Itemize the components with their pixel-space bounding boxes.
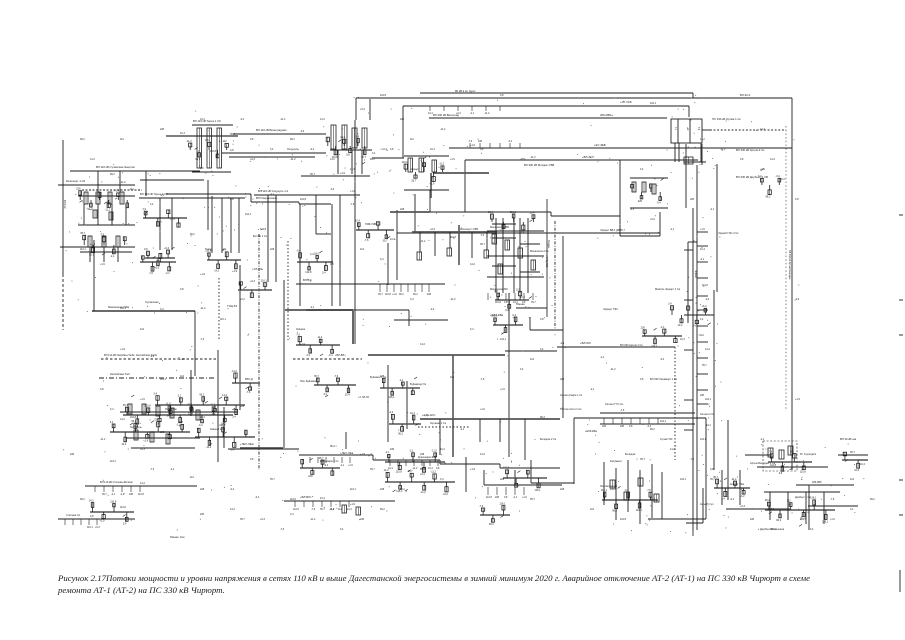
svg-text:110,8: 110,8 <box>380 94 387 97</box>
svg-text:3,4: 3,4 <box>290 513 294 516</box>
wire <box>529 317 531 330</box>
wire to right edge 2 <box>808 505 858 507</box>
svg-text:366-МВА+: 366-МВА+ <box>600 113 614 117</box>
transformer Makhachkala 4 <box>531 260 536 270</box>
svg-text:-2,1: -2,1 <box>670 228 675 231</box>
transformer <box>408 158 413 172</box>
svg-text:Буйнакск 2 Ск: Буйнакск 2 Ск <box>410 383 427 386</box>
svg-text:-7,6: -7,6 <box>480 378 485 381</box>
svg-text:228: 228 <box>478 140 483 143</box>
wire bottom-right link <box>757 466 828 468</box>
tap comb trunk2 <box>428 106 500 115</box>
svg-text:-11,2: -11,2 <box>610 368 616 371</box>
svg-text:10,4: 10,4 <box>428 467 433 470</box>
svg-text:-2,1: -2,1 <box>150 355 155 358</box>
transformer Makhachkala 3 <box>518 248 523 258</box>
svg-text:3,4: 3,4 <box>668 303 672 306</box>
svg-text:+ЕЛЗ-ЕВа: +ЕЛЗ-ЕВа <box>585 430 597 433</box>
transformer south of Kizilyurt <box>417 252 422 260</box>
svg-text:+1,9: +1,9 <box>300 343 306 346</box>
figure caption <box>58 572 903 596</box>
svg-text:+6,3: +6,3 <box>240 298 245 301</box>
svg-text:+1,9: +1,9 <box>180 358 185 361</box>
svg-text:-2,1: -2,1 <box>177 395 182 398</box>
svg-text:-7,6: -7,6 <box>647 489 652 492</box>
substation Zapiket <box>491 314 523 335</box>
svg-text:10,4: 10,4 <box>440 448 445 451</box>
wire drop <box>787 492 789 520</box>
svg-text:Сигнал-2 Ск: Сигнал-2 Ск <box>700 413 715 416</box>
svg-text:110,8: 110,8 <box>702 284 708 287</box>
svg-text:0,8: 0,8 <box>540 318 544 321</box>
feeder comb chain left <box>310 457 353 467</box>
svg-text:228: 228 <box>400 118 405 121</box>
svg-text:0,8: 0,8 <box>795 198 799 201</box>
svg-text:35,7: 35,7 <box>378 293 383 296</box>
wire spine stub <box>697 341 708 343</box>
wire dashed 110kV coast <box>101 358 217 360</box>
svg-text:14,2: 14,2 <box>700 138 705 141</box>
svg-text:228: 228 <box>308 475 313 478</box>
wire long vertical <box>283 280 285 448</box>
wire vertical <box>194 311 196 376</box>
wire spine stub <box>697 277 708 279</box>
wire left drop from trunk <box>355 98 357 120</box>
transformer <box>652 184 656 194</box>
svg-text:8,4: 8,4 <box>697 127 699 131</box>
wire spine link <box>688 241 697 243</box>
svg-text:35,7: 35,7 <box>102 493 107 496</box>
svg-text:+1,9: +1,9 <box>429 183 435 186</box>
svg-text:3,4: 3,4 <box>310 253 314 256</box>
substation N.Tyube <box>144 247 175 270</box>
svg-text:228: 228 <box>200 488 205 491</box>
wire <box>404 189 449 191</box>
svg-text:-2,1: -2,1 <box>513 496 518 499</box>
svg-text:Махачкала 1 ВВ: Махачкала 1 ВВ <box>490 226 509 229</box>
svg-text:3,4: 3,4 <box>232 416 236 419</box>
svg-text:3,4: 3,4 <box>306 354 310 357</box>
svg-text:3,4: 3,4 <box>110 408 114 411</box>
wire spine stub <box>697 245 708 247</box>
svg-text:228: 228 <box>560 378 565 381</box>
svg-text:-2,1: -2,1 <box>590 388 595 391</box>
wire vertical <box>239 265 241 410</box>
wire loop bottom <box>531 482 574 484</box>
svg-text:-2,1: -2,1 <box>270 193 275 196</box>
wire drop corridor 2 <box>479 419 481 442</box>
svg-text:-0,4: -0,4 <box>328 354 333 357</box>
wire left row2 drop <box>89 247 91 262</box>
substation left row 1 <box>76 188 128 212</box>
wire 330kV EU-ZEV <box>449 147 792 149</box>
svg-text:96,2: 96,2 <box>199 394 204 397</box>
svg-text:96,2: 96,2 <box>195 158 200 161</box>
transformer <box>102 236 106 247</box>
wire <box>516 307 547 309</box>
svg-text:0,8: 0,8 <box>250 138 254 141</box>
wire <box>78 195 135 197</box>
wire Kizilyurt south drop <box>471 232 473 258</box>
svg-text:14,2: 14,2 <box>214 270 219 273</box>
wire drop to south bus <box>483 470 485 485</box>
wire step horizontal <box>551 215 620 217</box>
svg-text:0,8: 0,8 <box>436 467 440 470</box>
svg-text:Касумкент: Касумкент <box>610 460 623 463</box>
wire loop left <box>573 418 575 484</box>
transformer <box>142 404 146 414</box>
wire Artem internal divider 2 <box>689 119 691 143</box>
svg-text:+1,9: +1,9 <box>470 144 476 147</box>
wire spine stub left <box>684 429 693 431</box>
tap comb EU-ZEV <box>468 140 520 148</box>
substation left row 2 <box>80 232 126 258</box>
svg-text:112: 112 <box>700 334 704 337</box>
feeder comb bottom-left chain <box>95 486 144 496</box>
transformer <box>632 182 636 192</box>
wire drop <box>230 198 232 253</box>
substation VLS-D cluster <box>296 250 333 275</box>
substation Buynaksk B <box>380 375 420 399</box>
transformer <box>170 408 174 418</box>
svg-text:96,2: 96,2 <box>380 508 385 511</box>
wire Makhachkala web row <box>520 271 540 273</box>
wire top connector <box>692 93 694 98</box>
svg-text:Кизилюрт 1 СК: Кизилюрт 1 СК <box>66 179 86 183</box>
transformer <box>156 406 160 416</box>
wire Artem south feeder a <box>674 143 676 162</box>
svg-text:-0,4: -0,4 <box>211 413 216 416</box>
svg-text:-11,2: -11,2 <box>412 467 418 470</box>
svg-text:Красноарм 1 Ск: Красноарм 1 Ск <box>320 460 339 463</box>
wire Magistralnaya <box>140 179 204 181</box>
transformer bank A1 <box>197 128 202 168</box>
svg-text:-0,4: -0,4 <box>255 496 260 499</box>
svg-text:10,4: 10,4 <box>355 220 360 223</box>
svg-text:-7,6: -7,6 <box>280 528 285 531</box>
svg-text:-11,2: -11,2 <box>430 471 436 474</box>
svg-text:10,4: 10,4 <box>121 443 126 446</box>
transformer bank B3 <box>352 128 357 148</box>
svg-text:-0,4: -0,4 <box>730 498 735 501</box>
wire drop <box>159 198 161 250</box>
transformer <box>128 404 132 414</box>
svg-text:-7,6: -7,6 <box>690 458 695 461</box>
wire page-right mark <box>899 479 903 481</box>
svg-text:ТЭЦ-Юг: ТЭЦ-Юг <box>227 304 238 308</box>
svg-text:-11,2: -11,2 <box>186 140 192 143</box>
svg-text:-11,2: -11,2 <box>120 181 126 184</box>
svg-text:10,4: 10,4 <box>678 324 683 327</box>
svg-text:+6,3: +6,3 <box>250 158 256 161</box>
svg-text:110,8: 110,8 <box>138 493 144 496</box>
svg-text:Чиркей ГЭС 2 Ск: Чиркей ГЭС 2 Ск <box>718 231 739 235</box>
wire chain <box>228 448 299 450</box>
svg-text:-11,2: -11,2 <box>100 438 106 441</box>
svg-text:0,8: 0,8 <box>230 149 234 152</box>
svg-text:-11,2: -11,2 <box>290 158 296 161</box>
wire Kizilyurt south drop <box>419 232 421 252</box>
wire drop to station B <box>369 99 371 120</box>
wire spine dark strand <box>687 242 689 323</box>
feeder comb on bottom chain <box>388 460 440 470</box>
svg-text:14,2: 14,2 <box>340 136 345 139</box>
wire dashed link to trunk <box>710 129 786 131</box>
svg-text:+6,3: +6,3 <box>420 473 426 476</box>
svg-text:228: 228 <box>380 488 385 491</box>
svg-text:-0,4: -0,4 <box>430 308 435 311</box>
wire long left vertical <box>354 120 356 344</box>
svg-text:14,2: 14,2 <box>222 394 227 397</box>
svg-text:10,4: 10,4 <box>680 338 685 341</box>
wire Artem south feeder 2 <box>701 144 703 165</box>
svg-text:228: 228 <box>620 425 625 428</box>
svg-text:116,1: 116,1 <box>245 213 252 216</box>
svg-text:35,7: 35,7 <box>270 478 275 481</box>
wire trunk tail <box>791 455 793 470</box>
wire corner <box>530 329 563 331</box>
substation trunk taps <box>758 169 781 199</box>
svg-text:110,8: 110,8 <box>120 506 126 509</box>
wire dashed vertical <box>218 278 220 340</box>
wire vertical <box>396 210 398 280</box>
svg-text:Махачкала-ТЭЦ: Махачкала-ТЭЦ <box>108 305 130 309</box>
substation Buynaksk A <box>314 375 356 397</box>
svg-text:-0,4: -0,4 <box>198 424 203 427</box>
svg-text:ВЛ 330 Артем 1 Ск: ВЛ 330 Артем 1 Ск <box>620 343 643 347</box>
wire 330kV top trunk <box>356 97 792 99</box>
svg-text:Буйнакск 1 Ск: Буйнакск 1 Ск <box>370 376 387 379</box>
svg-text:ВЛ 110 кВ Виноградная: ВЛ 110 кВ Виноградная <box>256 128 287 132</box>
svg-text:-2,1: -2,1 <box>470 112 475 115</box>
substation right small <box>842 452 868 472</box>
wire Kizilyurt south drop <box>486 232 488 250</box>
svg-text:-2,1: -2,1 <box>460 428 465 431</box>
svg-text:110,8: 110,8 <box>110 500 117 503</box>
svg-text:ВЛ 110 кВ Сулакская-Энергия: ВЛ 110 кВ Сулакская-Энергия <box>96 165 135 169</box>
svg-text:ВЛ 30 кВ юж: ВЛ 30 кВ юж <box>840 437 856 441</box>
svg-text:-0,4: -0,4 <box>624 489 629 492</box>
wire Makhachkala web row <box>492 265 516 267</box>
svg-text:228: 228 <box>76 188 81 191</box>
svg-text:-0,4: -0,4 <box>795 298 800 301</box>
svg-text:-11,2: -11,2 <box>105 208 111 211</box>
svg-text:10,4: 10,4 <box>706 424 711 427</box>
wire Artem south feeder c <box>700 143 702 162</box>
svg-text:+6,3: +6,3 <box>260 518 266 521</box>
svg-text:116,1: 116,1 <box>261 280 268 283</box>
svg-text:228: 228 <box>641 327 646 330</box>
svg-text:110,8: 110,8 <box>290 498 296 501</box>
svg-text:112: 112 <box>590 508 595 511</box>
svg-text:-7,6: -7,6 <box>480 234 485 237</box>
svg-text:112: 112 <box>223 140 228 143</box>
svg-text:-2,1: -2,1 <box>310 306 315 309</box>
svg-text:Леваши: Леваши <box>296 328 306 331</box>
svg-text:-11,2: -11,2 <box>200 307 206 310</box>
wire bottom-left chain <box>85 485 197 487</box>
svg-text:-7,6: -7,6 <box>830 498 835 501</box>
svg-text:+6,3: +6,3 <box>95 526 100 529</box>
svg-text:Сулак ГЭС: Сулак ГЭС <box>660 438 673 441</box>
substation north A <box>186 139 228 161</box>
wire Makhachkala feeder <box>527 218 529 293</box>
svg-text:116,1: 116,1 <box>500 338 507 341</box>
wire drop <box>171 198 173 250</box>
svg-text:96,2: 96,2 <box>110 173 115 176</box>
svg-text:-2,1: -2,1 <box>340 464 345 467</box>
wire dashed vertical 2 <box>287 241 289 340</box>
svg-text:228: 228 <box>638 200 643 203</box>
svg-text:228: 228 <box>129 493 134 496</box>
svg-text:228: 228 <box>560 488 565 491</box>
svg-text:86 кВ в мг. Црит: 86 кВ в мг. Црит <box>455 89 476 93</box>
svg-text:35,7: 35,7 <box>710 478 715 481</box>
svg-text:-11,2: -11,2 <box>280 118 286 121</box>
svg-text:Чирюрт ВВ 1 ДВ: Чирюрт ВВ 1 ДВ <box>600 228 620 232</box>
svg-text:-2,1: -2,1 <box>110 255 115 258</box>
transformer <box>150 432 154 442</box>
wire page-right mark <box>899 514 903 516</box>
svg-text:3,4: 3,4 <box>700 318 704 321</box>
svg-text:3,4: 3,4 <box>323 393 327 396</box>
wire spine stub <box>697 373 708 375</box>
transformer <box>419 158 424 172</box>
svg-text:+1,9: +1,9 <box>340 172 346 175</box>
svg-text:228: 228 <box>690 198 695 201</box>
svg-text:-11,2: -11,2 <box>310 518 316 521</box>
svg-text:Ботлих 1 Ск: Ботлих 1 Ск <box>253 235 268 238</box>
svg-text:110,8: 110,8 <box>503 467 510 470</box>
svg-text:186-МВт: 186-МВт <box>812 481 823 484</box>
wire Kizlyar feeder <box>721 470 723 505</box>
svg-text:35,7: 35,7 <box>640 458 645 461</box>
svg-text:228: 228 <box>360 518 365 521</box>
svg-text:0,8: 0,8 <box>100 388 104 391</box>
wire dash-dot <box>99 377 214 379</box>
svg-text:3,4: 3,4 <box>850 508 854 511</box>
svg-text:-0,4: -0,4 <box>705 298 710 301</box>
wire vertical <box>207 180 209 230</box>
svg-text:116,1: 116,1 <box>680 478 687 481</box>
bus vertical <box>458 225 460 265</box>
svg-text:110,8: 110,8 <box>300 198 307 201</box>
svg-text:+1,9: +1,9 <box>120 348 126 351</box>
svg-text:Чирюрт: Чирюрт <box>410 167 420 171</box>
svg-text:-7,6: -7,6 <box>200 338 205 341</box>
svg-text:110,8: 110,8 <box>260 228 267 231</box>
wire Makhachkala row 2 <box>487 255 544 257</box>
wire <box>301 175 370 177</box>
svg-text:0,8: 0,8 <box>230 198 234 201</box>
svg-text:0,8: 0,8 <box>500 94 504 97</box>
svg-text:14,2: 14,2 <box>166 415 171 418</box>
svg-text:112: 112 <box>360 248 365 251</box>
wire 330kV VL-ZEL <box>465 159 698 161</box>
wire chain wiggle drop <box>465 457 467 492</box>
wire dashed <box>82 189 142 191</box>
transformer bank A3 <box>217 128 222 168</box>
svg-text:228: 228 <box>750 518 755 521</box>
svg-text:-11,2: -11,2 <box>431 450 437 453</box>
wire page-right mark tall <box>899 570 901 592</box>
wire spine stub left <box>684 299 693 301</box>
wire <box>404 155 449 157</box>
wire <box>58 184 135 186</box>
wire Makhachkala feeder <box>513 218 515 293</box>
svg-text:3,4: 3,4 <box>270 148 274 151</box>
svg-text:0,8: 0,8 <box>710 468 714 471</box>
svg-text:14,2: 14,2 <box>760 128 765 131</box>
svg-text:116,1: 116,1 <box>110 460 116 463</box>
svg-text:35,7: 35,7 <box>319 457 324 460</box>
svg-text:228: 228 <box>420 453 425 456</box>
svg-text:Красноарм 2 Ск: Красноарм 2 Ск <box>418 456 437 459</box>
svg-text:35,7: 35,7 <box>480 243 485 246</box>
wire <box>361 150 363 174</box>
svg-text:+1,9: +1,9 <box>350 503 356 506</box>
wire lower-middle feeder <box>603 462 605 505</box>
wire bottom chain 2 <box>284 500 395 502</box>
svg-text:-7,6: -7,6 <box>620 409 625 412</box>
svg-text:96,2: 96,2 <box>370 158 375 161</box>
wire page-right mark <box>899 299 903 301</box>
svg-text:Сигнал-Гамри 1 Ск: Сигнал-Гамри 1 Ск <box>560 394 583 397</box>
wire spine stub left <box>684 399 693 401</box>
wire web vertical 2 <box>217 350 219 462</box>
svg-text:14,2: 14,2 <box>90 158 95 161</box>
wire <box>229 156 315 158</box>
wire corner down <box>408 310 410 326</box>
wire page-right mark <box>899 334 903 336</box>
svg-text:ВЛ 330 кВ Моздок-1 ВВ: ВЛ 330 кВ Моздок-1 ВВ <box>524 163 554 167</box>
wire to Kizlyar <box>713 455 715 470</box>
wire left vertical <box>62 140 64 274</box>
wire dashed right vertical <box>785 126 787 411</box>
wire dark vertical Mozdok <box>546 199 548 317</box>
svg-text:+1,9: +1,9 <box>90 243 96 246</box>
svg-text:ВЛ 330 кВ Дербент-1 СВ: ВЛ 330 кВ Дербент-1 СВ <box>736 175 768 179</box>
wire drop <box>97 171 99 192</box>
wire top trunk upper <box>420 92 693 94</box>
svg-text:116,1: 116,1 <box>705 398 712 401</box>
svg-text:112: 112 <box>787 500 792 503</box>
svg-text:10,4: 10,4 <box>430 148 435 151</box>
bus <box>390 211 430 213</box>
svg-text:-2,1: -2,1 <box>385 451 390 454</box>
svg-text:3,4: 3,4 <box>223 249 227 252</box>
substation bottom-left row upper <box>153 393 245 419</box>
wire right trunk vertical <box>791 98 793 455</box>
wire drop <box>221 198 223 253</box>
svg-text:-11,2: -11,2 <box>420 240 426 243</box>
svg-text:-2,1: -2,1 <box>660 326 665 329</box>
bus LEU-LEV <box>240 447 283 449</box>
svg-text:10,4: 10,4 <box>345 394 350 397</box>
wire inner boundary <box>430 211 551 213</box>
svg-text:3,4: 3,4 <box>640 168 644 171</box>
svg-text:0,8: 0,8 <box>200 167 204 170</box>
substation small cluster below <box>389 411 421 435</box>
svg-text:ВЛ 110 кВ Степная-Филиал: ВЛ 110 кВ Степная-Филиал <box>100 480 133 484</box>
wire dashed vertical <box>674 347 676 460</box>
wire drop long 4 <box>331 204 333 306</box>
wire drop <box>145 171 147 196</box>
svg-text:+6,3: +6,3 <box>140 448 146 451</box>
wire Artem south link <box>684 161 706 163</box>
svg-text:0,8: 0,8 <box>522 301 526 304</box>
wire bottom-right bus <box>764 491 840 493</box>
